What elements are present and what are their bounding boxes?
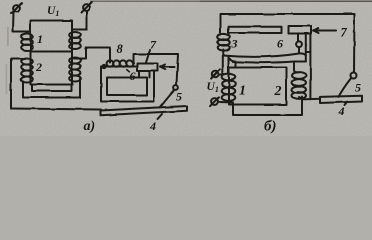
svg-text:6: 6 [277, 37, 283, 51]
coil w2 left (label 2) [21, 59, 33, 83]
svg-text:7: 7 [341, 26, 348, 40]
pivot circle 6 [296, 41, 302, 47]
coil 8 axis [104, 66, 136, 68]
terminal right U1 [83, 4, 90, 11]
terminal b top [212, 70, 218, 76]
coil w1 right [69, 32, 81, 49]
relay coil 8 feed dot [102, 65, 105, 68]
svg-text:1: 1 [239, 84, 246, 99]
bar 4 (a) [101, 106, 188, 115]
label 6 leader [126, 69, 130, 72]
coil3 bottom lead [222, 50, 224, 72]
svg-text:4: 4 [149, 119, 156, 133]
svg-text:б): б) [264, 119, 276, 135]
label 4 leader b [345, 102, 348, 106]
blade 5 b [339, 79, 351, 97]
terminal b bottom [211, 99, 218, 106]
left limb [30, 33, 32, 85]
core rect b [229, 68, 287, 105]
wire A sag [223, 53, 306, 56]
contact circle a [174, 85, 179, 90]
long bar 3 [229, 27, 282, 33]
wire T1 to coil1 left [13, 12, 31, 32]
arrow into box 7 [161, 66, 174, 68]
winding1 bottom connection [31, 51, 73, 53]
scan mark left edge [7, 27, 9, 46]
svg-text:8: 8 [117, 42, 124, 56]
coil w2 right [69, 58, 81, 82]
contact circle b [351, 73, 357, 79]
wire coil2 to bar 4 [299, 97, 320, 99]
coil 3 [217, 34, 230, 40]
svg-text:4: 4 [338, 104, 345, 118]
arrow into 6 [314, 30, 336, 32]
junction wire left [11, 59, 25, 109]
coil2 feed [294, 62, 298, 73]
right limb [71, 31, 73, 85]
bar 4 b [320, 96, 362, 103]
wire T2 to coil1 right [72, 12, 87, 30]
svg-text:2: 2 [35, 60, 42, 74]
coil w1 left (label 1) [21, 34, 33, 51]
svg-text:5: 5 [176, 90, 182, 104]
switch blade 5 [160, 90, 175, 108]
core top bar a [31, 21, 73, 34]
junction wire right to relay [74, 48, 110, 63]
legs under bar 6 [297, 34, 299, 42]
svg-text:3: 3 [231, 37, 238, 51]
scan border top [90, 1, 372, 2]
svg-text:7: 7 [150, 38, 157, 52]
box 7 legs [138, 71, 140, 78]
armature box 7 [137, 64, 158, 72]
coil 2 b [292, 72, 306, 79]
inner rect relay [107, 78, 147, 96]
bottom wire a [11, 109, 101, 110]
winding2 bottom U wire [23, 79, 80, 98]
svg-text:1: 1 [37, 32, 43, 46]
coil 8 loops [107, 60, 114, 66]
svg-text:5: 5 [355, 81, 361, 95]
label 7 leader [146, 50, 150, 63]
terminal left U1 [13, 5, 20, 12]
paper background [0, 0, 372, 136]
core bottom yoke bar [32, 85, 71, 92]
middle wire loop relay [101, 67, 154, 102]
label 4 leader [158, 114, 163, 119]
svg-text:6: 6 [130, 69, 136, 83]
wire bottom terminal [219, 97, 303, 116]
frame b [221, 14, 355, 72]
lead to coil1 top [228, 57, 230, 74]
svg-text:а): а) [84, 119, 96, 134]
relay frame a [134, 54, 179, 85]
armature bar 6 [289, 26, 312, 34]
wire B sag [230, 59, 306, 68]
coil 1 b [222, 74, 236, 81]
svg-text:2: 2 [274, 84, 282, 99]
